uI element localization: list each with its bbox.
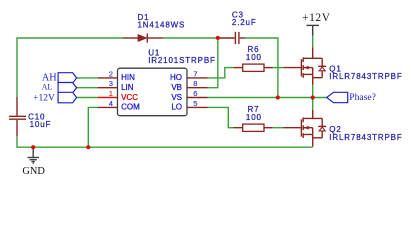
svg-text:IRLR7843TRPBF: IRLR7843TRPBF [329,133,402,142]
svg-text:Phase?: Phase? [349,92,376,103]
svg-text:IR2101STRPBF: IR2101STRPBF [148,56,216,65]
svg-text:+12V: +12V [302,12,331,24]
svg-text:5: 5 [193,99,197,108]
svg-text:COM: COM [121,103,140,112]
svg-text:1N4148WS: 1N4148WS [138,21,186,30]
svg-text:2: 2 [109,69,113,78]
svg-text:2.2uF: 2.2uF [232,18,257,27]
svg-text:GND: GND [22,166,45,177]
svg-text:8: 8 [193,79,197,88]
svg-text:AL: AL [42,82,53,91]
svg-text:VCC: VCC [121,93,138,102]
svg-text:IRLR7843TRPBF: IRLR7843TRPBF [329,72,402,81]
svg-text:100: 100 [246,113,262,122]
svg-text:LIN: LIN [121,83,134,92]
svg-text:4: 4 [109,99,113,108]
svg-text:3: 3 [109,79,113,88]
svg-text:+12V: +12V [33,94,55,104]
svg-text:VS: VS [171,93,182,102]
svg-text:100: 100 [246,53,262,62]
svg-text:HIN: HIN [121,73,135,82]
svg-text:LO: LO [171,103,182,112]
svg-text:1: 1 [109,89,113,98]
svg-text:10uF: 10uF [30,120,52,129]
svg-text:HO: HO [170,73,182,82]
svg-text:7: 7 [193,69,197,78]
svg-text:VB: VB [171,83,182,92]
svg-text:6: 6 [193,89,197,98]
